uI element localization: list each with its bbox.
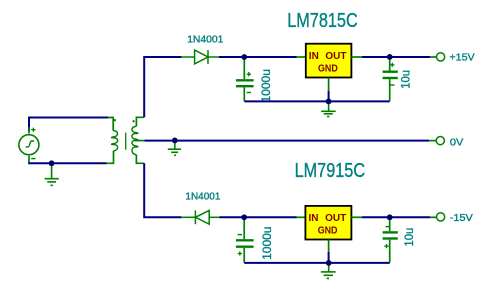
svg-text:1N4001: 1N4001 xyxy=(187,33,223,45)
svg-text:OUT: OUT xyxy=(325,213,346,224)
wire transformer secondary top to positive rail xyxy=(136,57,181,126)
regulator U2 LM7915C body xyxy=(305,206,351,240)
node junction on AC bottom wire xyxy=(49,160,55,166)
regulator U1 LM7815C body xyxy=(306,44,352,78)
ground (AC source) xyxy=(45,163,59,185)
capacitor C4 10u (bottom) xyxy=(383,218,398,262)
svg-text:1000u: 1000u xyxy=(260,227,274,260)
ground (top section) xyxy=(321,101,336,116)
node junction bottom rail / C3 xyxy=(241,214,247,220)
capacitor C2 10u (top) xyxy=(383,58,398,101)
wire bottom ground rail (C3 to C4 under U2) xyxy=(244,262,390,264)
terminal +15V xyxy=(437,53,445,61)
wire AC bottom to transformer primary xyxy=(28,151,113,163)
wire diode D2 to regulator U2 input xyxy=(220,216,306,218)
wire regulator U1 output to +15V terminal xyxy=(351,56,436,58)
node junction bottom rail / C4 xyxy=(387,214,393,220)
svg-text:IN: IN xyxy=(309,213,319,224)
capacitor C3 1000u (bottom) xyxy=(236,218,254,262)
diode D1 1N4001 (positive rail) xyxy=(181,50,220,64)
transformer T1 phase dot (secondary) xyxy=(132,120,134,122)
wire AC top to transformer primary xyxy=(29,118,113,132)
terminal 0V xyxy=(436,137,444,145)
svg-text:LM7815C: LM7815C xyxy=(287,10,358,32)
ground (0V rail) xyxy=(168,140,181,155)
svg-text:10u: 10u xyxy=(402,228,416,247)
node junction top ground rail xyxy=(326,99,332,105)
svg-text:OUT: OUT xyxy=(325,51,346,62)
transformer T1 core xyxy=(125,133,127,150)
svg-text:GND: GND xyxy=(318,225,338,236)
wire regulator U2 output to -15V terminal xyxy=(351,216,436,218)
svg-text:IN: IN xyxy=(309,51,319,62)
transformer T1 secondary winding xyxy=(132,126,138,155)
svg-text:1N4001: 1N4001 xyxy=(185,190,220,202)
node junction bottom ground rail xyxy=(326,260,332,266)
svg-text:0V: 0V xyxy=(450,136,464,148)
wire regulator U2 GND lead xyxy=(328,240,330,263)
diode D2 1N4001 (negative rail) xyxy=(181,210,220,224)
ground (bottom section) xyxy=(321,263,336,279)
node junction top rail / C1 xyxy=(241,54,247,60)
svg-text:-15V: -15V xyxy=(450,212,473,224)
svg-text:1000u: 1000u xyxy=(259,69,273,102)
node junction top rail / C2 xyxy=(387,54,393,60)
svg-text:LM7915C: LM7915C xyxy=(295,160,366,182)
wire diode D1 to regulator U1 input xyxy=(219,56,306,58)
AC source V1 xyxy=(19,127,39,163)
wire regulator U1 GND lead xyxy=(328,78,330,102)
transformer T1 phase dot (primary) xyxy=(114,119,116,121)
transformer T1 primary winding xyxy=(112,131,118,151)
node junction 0V rail xyxy=(172,138,178,144)
wire transformer secondary bottom to negative rail xyxy=(136,155,181,218)
svg-text:GND: GND xyxy=(318,63,338,74)
capacitor C1 1000u (top) xyxy=(236,58,254,101)
wire top ground rail (C1 to C2 under U1) xyxy=(244,100,389,102)
svg-text:+15V: +15V xyxy=(449,51,474,63)
svg-text:10u: 10u xyxy=(399,70,413,89)
terminal -15V xyxy=(437,213,445,221)
wire 0V rail (center tap to terminal) xyxy=(135,140,437,142)
